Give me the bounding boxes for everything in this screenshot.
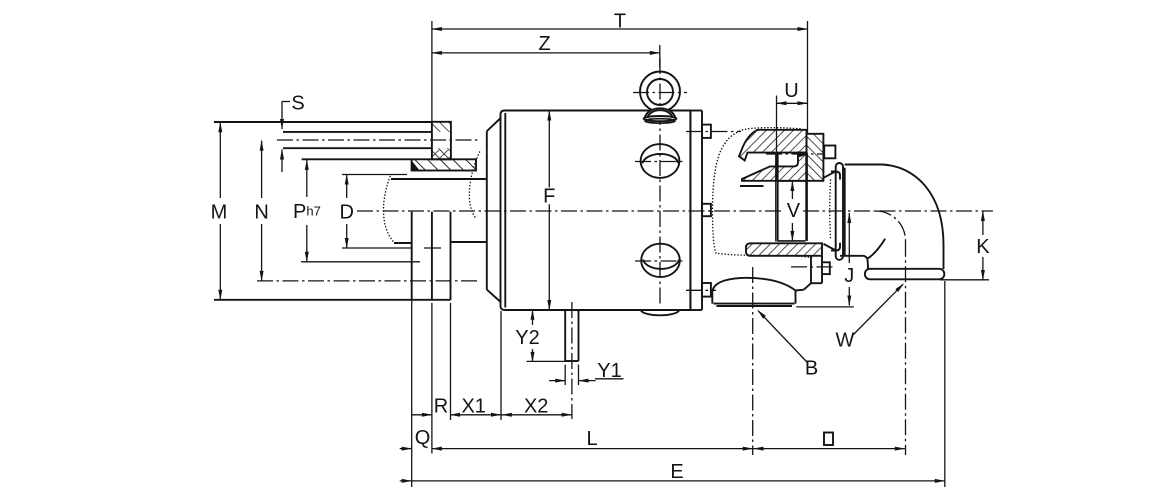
drain centerline xyxy=(791,266,834,268)
dim T xyxy=(432,28,808,30)
tabs xyxy=(702,125,711,138)
gland block xyxy=(432,122,451,160)
union nut xyxy=(824,163,845,260)
svg-text:N: N xyxy=(254,202,268,224)
Q L box arrows xyxy=(402,447,413,451)
elbow xyxy=(840,165,944,280)
Y2 arrows xyxy=(531,309,535,320)
dim S xyxy=(282,101,290,103)
svg-text:Q: Q xyxy=(415,427,431,449)
dim M xyxy=(219,122,221,198)
bottom bolt centerline xyxy=(257,280,480,282)
rotor bottom bar xyxy=(746,243,822,256)
leader W xyxy=(854,284,904,334)
nut shoulders xyxy=(831,172,840,251)
rotor top block xyxy=(739,130,835,186)
dim Y1 xyxy=(549,380,565,382)
row Q L box xyxy=(400,448,412,450)
siphon pipe inner bottom xyxy=(283,147,432,149)
hub bar xyxy=(412,159,476,170)
svg-text:M: M xyxy=(211,202,228,224)
shaft xyxy=(391,179,487,243)
elbow outlet centerline xyxy=(905,241,907,455)
body plugs xyxy=(641,144,680,277)
siphon pipe outer top / M extension xyxy=(214,121,432,123)
eye bolt xyxy=(640,72,680,124)
break curve left of flange xyxy=(384,177,395,243)
outlet bead xyxy=(865,269,944,280)
svg-text:Y1: Y1 xyxy=(597,360,621,382)
dim Ph7 xyxy=(306,160,308,197)
J arrows xyxy=(847,213,851,224)
drain stub xyxy=(565,310,578,361)
flange ring top xyxy=(807,134,824,181)
dim K xyxy=(982,211,984,235)
tab centerline bottom xyxy=(686,289,716,291)
top stud xyxy=(824,146,835,159)
Y1 arrows xyxy=(555,379,566,383)
row R X1 X2 xyxy=(412,414,432,416)
svg-text:U: U xyxy=(784,80,798,102)
svg-text:T: T xyxy=(614,11,626,33)
T arrows xyxy=(431,27,442,31)
flange xyxy=(214,212,451,300)
K arrows xyxy=(981,211,985,222)
rotor boss xyxy=(804,256,830,290)
dim Z xyxy=(432,52,660,54)
svg-text:W: W xyxy=(836,330,855,352)
dim Y2 xyxy=(532,310,534,325)
drain plug xyxy=(822,262,830,274)
drain stub centerline xyxy=(571,302,573,419)
rotor dome xyxy=(712,278,804,306)
row E xyxy=(400,480,945,482)
Z arrows xyxy=(431,51,442,55)
E arrows xyxy=(402,479,413,483)
svg-text:B: B xyxy=(805,358,818,380)
dim D xyxy=(346,175,348,199)
R row arrows xyxy=(422,413,433,417)
V arrows xyxy=(790,181,794,192)
svg-text:F: F xyxy=(543,186,555,208)
plug tick bottom xyxy=(635,260,686,262)
svg-text:K: K xyxy=(976,236,990,258)
main horizontal centerline xyxy=(357,210,784,212)
body xyxy=(501,111,711,316)
svg-text:X1: X1 xyxy=(461,396,485,418)
neck xyxy=(487,118,501,303)
D arrows xyxy=(345,174,349,185)
elbow path centerline arc xyxy=(876,211,906,241)
S arrows xyxy=(280,119,284,130)
break curve right of flange xyxy=(469,152,479,218)
svg-text:V: V xyxy=(787,200,801,222)
svg-text:Z: Z xyxy=(538,33,550,55)
dim N xyxy=(261,141,263,198)
svg-text:J: J xyxy=(844,265,854,287)
U arrows xyxy=(776,101,787,105)
svg-text:L: L xyxy=(586,428,597,450)
F arrows xyxy=(547,110,551,121)
top bar xyxy=(742,153,807,181)
rotor B centerline xyxy=(752,267,754,455)
right plate xyxy=(689,111,691,311)
leader B xyxy=(758,311,807,362)
dim V xyxy=(791,181,793,199)
tab centerline top xyxy=(686,131,741,133)
bottom bump xyxy=(641,310,679,315)
tofu box label xyxy=(824,433,833,446)
svg-text:Y2: Y2 xyxy=(515,327,539,349)
siphon pipe inner top xyxy=(283,131,432,133)
joint arrow xyxy=(797,151,808,158)
M arrows xyxy=(218,122,222,133)
eye bolt / body face vertical centerline xyxy=(659,58,661,306)
svg-text:S: S xyxy=(291,93,304,115)
svg-text:E: E xyxy=(670,461,683,483)
pipe / top bolt centerline xyxy=(277,139,480,141)
plug tick top xyxy=(635,161,686,163)
dim J xyxy=(848,213,850,263)
N arrows xyxy=(260,140,264,151)
svg-text:R: R xyxy=(434,396,448,418)
dim U xyxy=(777,102,808,104)
stud centerline xyxy=(766,153,833,155)
rotor phantom outline xyxy=(713,128,813,258)
dim F xyxy=(548,111,550,188)
svg-text:D: D xyxy=(339,202,353,224)
siphon pipe outer bottom xyxy=(302,158,412,160)
svg-text:X2: X2 xyxy=(524,396,548,418)
eye bolt horizontal tick xyxy=(633,92,687,94)
Ph7 arrows xyxy=(305,159,309,170)
rotor bore xyxy=(776,153,807,242)
